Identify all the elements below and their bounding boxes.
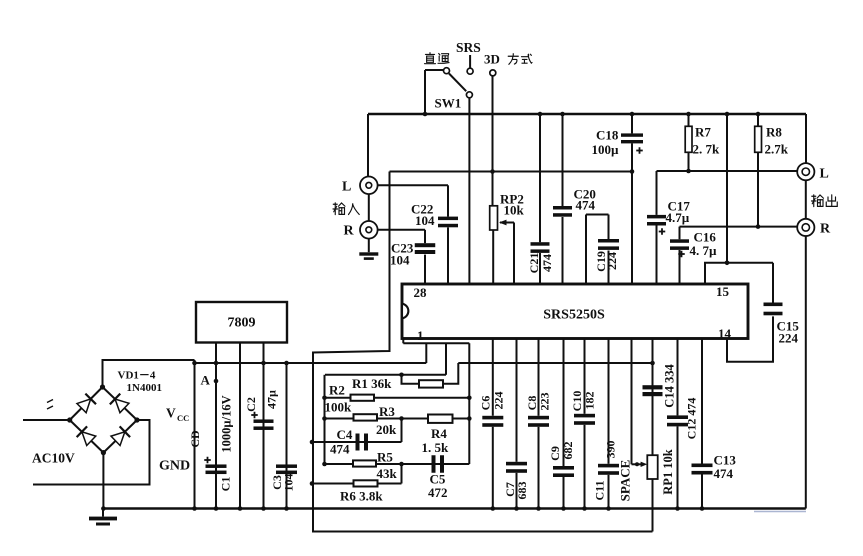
svg-text:683: 683 — [515, 482, 529, 500]
svg-text:474: 474 — [576, 198, 596, 213]
svg-text:R6 3.8k: R6 3.8k — [340, 489, 383, 504]
svg-text:V: V — [166, 406, 176, 421]
svg-text:43k: 43k — [377, 466, 398, 481]
svg-text:SPACE: SPACE — [617, 460, 632, 502]
svg-text:C9: C9 — [548, 446, 562, 461]
svg-text:1. 5k: 1. 5k — [422, 440, 450, 455]
svg-text:R8: R8 — [766, 125, 782, 140]
svg-text:C1: C1 — [218, 477, 232, 492]
svg-text:390: 390 — [603, 441, 617, 459]
svg-text:14: 14 — [718, 326, 732, 341]
svg-text:4. 7µ: 4. 7µ — [690, 243, 718, 258]
svg-text:4.7µ: 4.7µ — [666, 210, 690, 225]
svg-text:47µ: 47µ — [264, 390, 278, 409]
svg-text:SRS: SRS — [456, 40, 481, 55]
svg-text:R4: R4 — [431, 426, 447, 441]
svg-text:28: 28 — [414, 285, 428, 300]
svg-text:100µ: 100µ — [592, 142, 620, 157]
svg-text:104: 104 — [415, 213, 435, 228]
svg-text:20k: 20k — [376, 422, 397, 437]
svg-text:R3: R3 — [379, 404, 395, 419]
svg-text:2. 7k: 2. 7k — [693, 142, 721, 157]
svg-text:10k: 10k — [504, 203, 525, 218]
svg-text:224: 224 — [491, 392, 505, 410]
svg-text:C11: C11 — [592, 480, 606, 500]
svg-text:SRS5250S: SRS5250S — [543, 308, 605, 323]
svg-text:1: 1 — [417, 328, 424, 343]
svg-text:R1 36k: R1 36k — [352, 376, 392, 391]
svg-text:SW1: SW1 — [435, 96, 462, 111]
svg-text:1000µ/16V: 1000µ/16V — [219, 395, 233, 452]
svg-text:474: 474 — [714, 466, 734, 481]
svg-text:R: R — [820, 222, 831, 237]
svg-text:C6: C6 — [478, 396, 492, 411]
svg-text:VD1－4: VD1－4 — [118, 370, 156, 382]
svg-text:100k: 100k — [325, 400, 353, 415]
svg-text:7809: 7809 — [228, 316, 256, 331]
svg-text:682: 682 — [561, 442, 575, 460]
svg-text:474: 474 — [540, 254, 554, 272]
svg-text:C14 334: C14 334 — [662, 364, 676, 408]
svg-text:R7: R7 — [695, 125, 711, 140]
svg-text:474: 474 — [330, 442, 350, 457]
svg-text:C21: C21 — [527, 253, 541, 274]
svg-text:182: 182 — [582, 392, 596, 410]
svg-text:1N4001: 1N4001 — [127, 382, 162, 394]
svg-text:C2: C2 — [244, 397, 258, 412]
svg-text:A: A — [201, 373, 211, 388]
svg-text:224: 224 — [605, 252, 619, 270]
svg-text:C4: C4 — [337, 427, 353, 442]
svg-text:R2: R2 — [329, 383, 345, 398]
svg-text:3D: 3D — [484, 52, 500, 67]
svg-text:L: L — [342, 180, 351, 195]
svg-text:224: 224 — [779, 331, 799, 346]
svg-text:2.7k: 2.7k — [765, 142, 789, 157]
svg-text:C18: C18 — [596, 128, 619, 143]
svg-text:R: R — [344, 224, 355, 239]
svg-text:R5: R5 — [377, 450, 393, 465]
svg-text:C12 474: C12 474 — [684, 398, 698, 440]
svg-text:15: 15 — [716, 284, 730, 299]
svg-text:GND: GND — [159, 459, 190, 474]
svg-text:RP1 10k: RP1 10k — [661, 449, 675, 495]
svg-text:472: 472 — [428, 485, 448, 500]
svg-text:AC10V: AC10V — [32, 451, 75, 466]
svg-text:104: 104 — [281, 474, 295, 492]
svg-text:CC: CC — [177, 413, 189, 423]
svg-text:L: L — [820, 167, 829, 182]
svg-text:223: 223 — [537, 393, 551, 411]
svg-text:104: 104 — [390, 253, 410, 268]
